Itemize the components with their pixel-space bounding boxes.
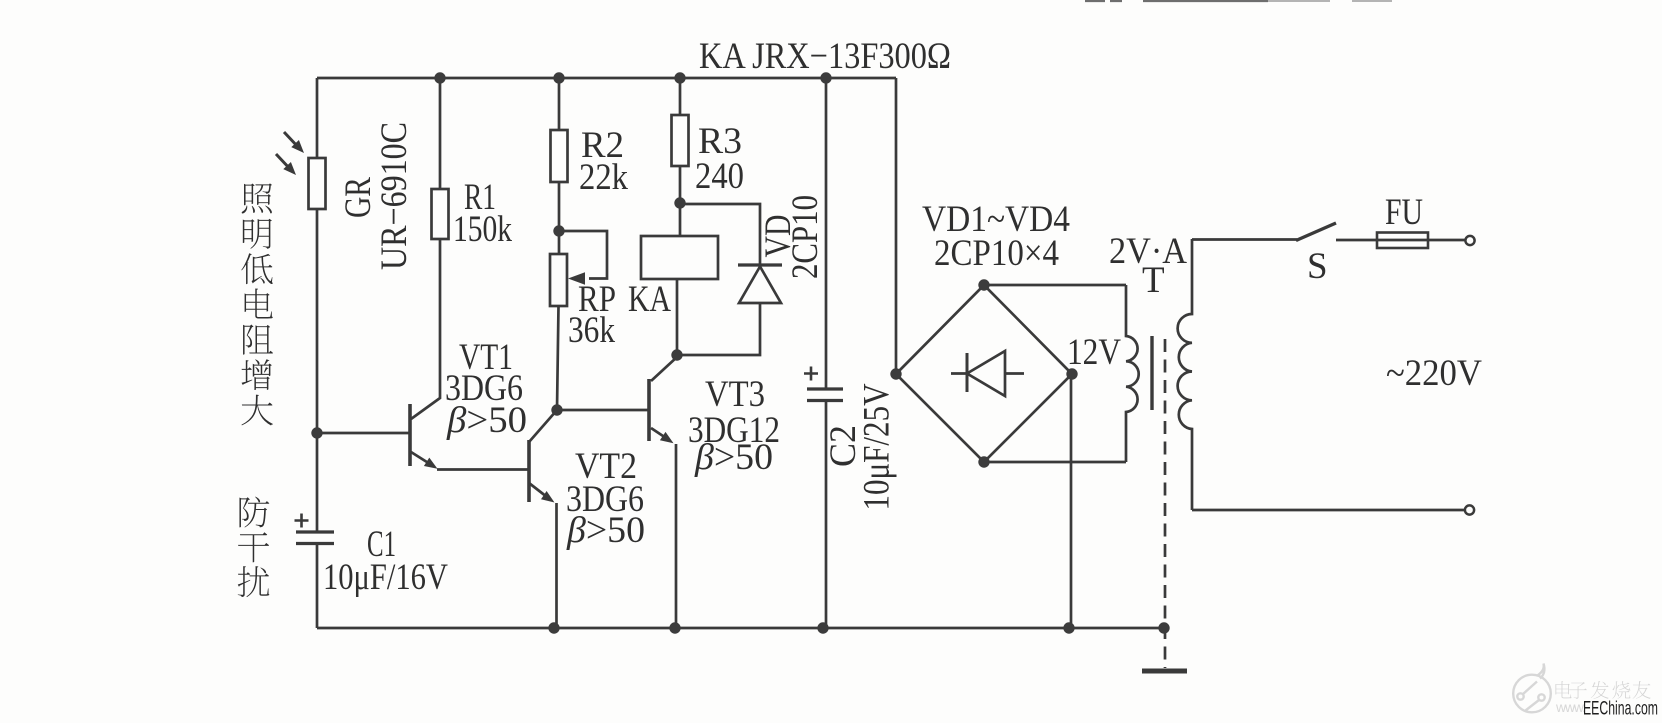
transistor VT3 collector [651,357,677,381]
svg-text:S: S [1307,246,1328,287]
transistor VT2 emitter [529,483,547,497]
svg-text:FU: FU [1385,192,1423,233]
svg-text:10μF/16V: 10μF/16V [323,557,448,598]
node gnd-C2 [817,622,828,633]
wire VD branch top [680,204,760,265]
node R3-relay-VD [674,197,685,208]
watermark 电子发烧友 [1555,681,1571,698]
svg-text:2CP10×4: 2CP10×4 [934,233,1059,274]
caption 照明低电阻增大 (vertical) [241,183,273,425]
wire VT1 base from left column [317,432,410,435]
watermark logo circle [1513,664,1551,713]
wire switch to fuse to terminal [1336,239,1465,242]
wire bridge right corner down to ground rail [1070,374,1073,628]
node gnd-VT2e [548,622,559,633]
svg-text:KA JRX−13F300Ω: KA JRX−13F300Ω [699,36,951,77]
wire VT3 emitter down [675,444,678,628]
transformer shield dashed line to ground [1164,339,1167,668]
wire R1 branch [411,78,440,419]
node relay-VD-VT3 [671,349,682,360]
node RP tap [553,225,564,236]
svg-text:12V: 12V [1067,332,1121,373]
RP wiper tap wire [559,231,607,279]
transformer T primary winding [1178,239,1192,510]
wire primary bottom to terminal [1192,509,1464,512]
svg-text:KA: KA [628,279,671,320]
svg-text:~220V: ~220V [1386,353,1482,394]
transistor VT2 collector [529,410,557,442]
transistor VT2 base bar [527,440,531,502]
bridge rectifier VD1-VD4 diamond [896,285,1072,462]
svg-text:150k: 150k [453,209,512,250]
relay coil KA box [641,236,718,279]
node rail-C2 [820,72,831,83]
photoresistor GR body [309,158,326,209]
transistor VT3 emitter [651,428,666,438]
transformer core line [1150,336,1153,410]
wire VT2 collector node to VT3 base [557,409,649,412]
resistor R1 body [432,189,449,239]
C2 polarity plus [804,367,818,381]
svg-text:VT3: VT3 [705,374,765,415]
resistor R2 body [551,130,568,182]
wire relay bottom to node [676,279,679,355]
node bridge right [1066,368,1077,379]
node rail-R3 [674,72,685,83]
transistor VT1 base bar [408,404,412,466]
wire primary top to switch [1192,238,1297,241]
wire R3 branch [679,78,682,236]
wire top rail down to bridge left corner [895,78,898,374]
wire VD branch bottom [677,303,760,355]
caption 防干扰 (vertical) [238,497,270,597]
svg-text:β>50: β>50 [566,510,645,551]
node gnd-shield [1158,622,1169,633]
svg-text:240: 240 [695,156,744,197]
wire left column (GR/C1 branch) [316,78,319,628]
svg-text:T: T [1142,260,1165,301]
node gnd-VT3e [669,622,680,633]
svg-text:β>50: β>50 [694,437,773,478]
node bridge top [978,279,989,290]
resistor R3 body [672,115,689,166]
node gnd-bridge [1063,622,1074,633]
wire VT1 emitter to VT2 base [437,468,529,471]
scan artifact line top edge [1085,0,1268,2]
svg-text:GR: GR [338,177,379,218]
svg-text:β>50: β>50 [446,400,527,441]
terminal circle top [1465,236,1474,245]
svg-text:www.: www. [1555,699,1586,715]
transistor VT3 base bar [647,379,651,441]
node rail-R2 [553,72,564,83]
diode VD triangle [739,267,781,304]
node bridge bottom [978,456,989,467]
node rail-R1 [434,72,445,83]
transistor VT1 emitter [411,452,430,464]
wire bridge AC bottom to transformer secondary [984,461,1126,464]
wire R2 branch [557,78,559,410]
capacitor C2 plates [807,389,843,401]
light arrow 2 into GR [276,154,291,170]
svg-text:10μF/25V: 10μF/25V [857,383,898,510]
svg-text:2CP10: 2CP10 [785,195,826,279]
svg-text:36k: 36k [568,310,615,351]
wire VT2 emitter down [555,503,558,628]
ground symbol [1142,669,1187,674]
wire top supply rail [317,77,896,80]
fuse FU body [1377,233,1428,249]
bridge inner diode symbol [951,351,1024,396]
terminal circle bottom [1465,505,1474,514]
capacitor C1 plates [296,532,334,544]
node VT1 base tap [311,427,322,438]
light arrow 1 into GR [284,132,299,148]
svg-text:22k: 22k [579,157,628,198]
wire C2 branch [825,78,828,628]
switch S blade [1296,223,1336,241]
node VT2c-RP-VT3b [551,404,562,415]
transformer T secondary winding [1126,285,1139,462]
node bridge left [890,368,901,379]
potentiometer RP body [550,254,567,306]
wire bottom ground rail [317,627,1164,630]
diode VD cathode bar [738,263,782,266]
svg-text:UR−6910C: UR−6910C [374,122,415,270]
C1 polarity plus [295,514,309,528]
wire bridge AC top to transformer secondary [984,284,1126,287]
svg-text:EEChina.com: EEChina.com [1583,698,1658,720]
